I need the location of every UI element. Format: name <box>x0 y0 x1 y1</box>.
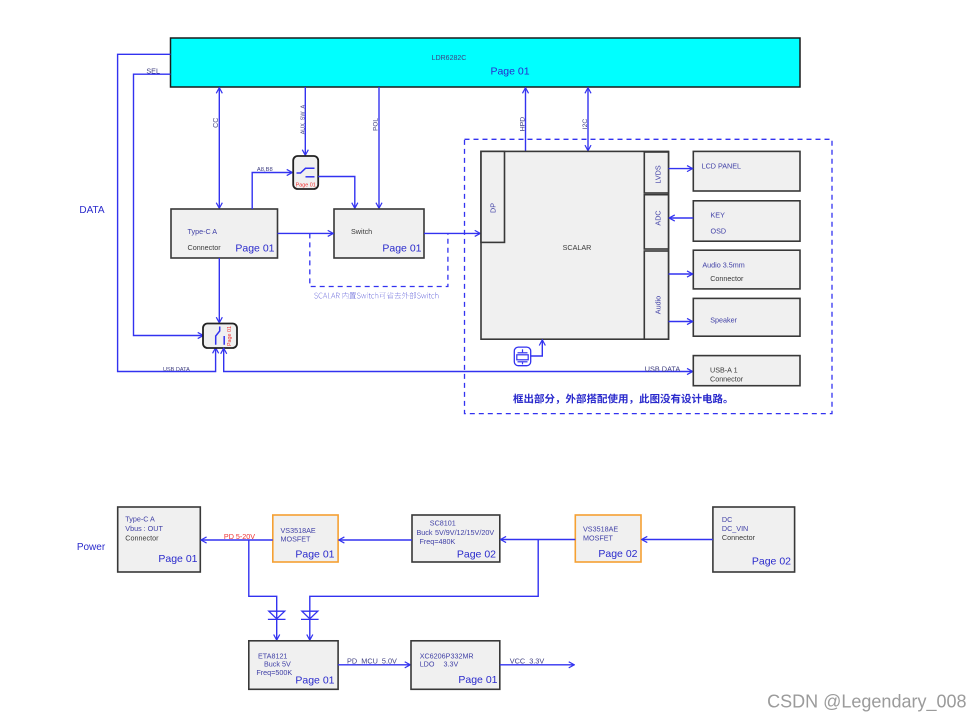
wire Type-C A to Switch <box>278 232 334 234</box>
wire USB DATA east to USB-A 1 <box>224 348 693 373</box>
diode D1 <box>268 611 286 619</box>
svg-text:Page 01: Page 01 <box>158 553 197 565</box>
annotation Chinese note <box>513 394 727 404</box>
svg-text:I2C: I2C <box>582 119 589 130</box>
watermark <box>767 692 966 713</box>
svg-text:SCALAR: SCALAR <box>563 243 592 252</box>
svg-text:Freq=480K: Freq=480K <box>420 537 456 546</box>
connector J1 Type-C A <box>171 209 278 258</box>
svg-text:Page 01: Page 01 <box>295 549 334 561</box>
wire USB DATA net from U1 to USB mux <box>118 54 216 373</box>
port DP <box>481 151 505 242</box>
annotation text switch note <box>314 292 438 299</box>
svg-text:ADC: ADC <box>654 210 663 225</box>
svg-text:Buck5V/9V/12/15V/20V: Buck5V/9V/12/15V/20V <box>417 528 495 537</box>
wire PD_MCU_5.0V <box>338 657 410 666</box>
svg-text:SEL: SEL <box>146 67 160 76</box>
IC U6 SC8101 <box>412 515 500 562</box>
wire KEY OSD to ADC <box>670 217 694 219</box>
wire SC8101 to Q1 <box>339 539 412 541</box>
mosfet Q2 VS3518AE <box>575 515 641 562</box>
block KEY OSD <box>693 201 800 241</box>
svg-text:MOSFET: MOSFET <box>583 534 614 543</box>
block Audio 3.5mm Connector <box>693 250 800 289</box>
wire I2C net <box>582 88 589 150</box>
port ADC <box>644 195 668 249</box>
wire SEL net <box>134 67 204 336</box>
dashed external-parts region box <box>465 139 833 413</box>
wire AUX_SW_A net <box>301 87 307 155</box>
wire VCC_3.3V <box>500 657 574 666</box>
svg-text:Connector: Connector <box>125 534 159 543</box>
wire LVDS to LCD PANEL <box>669 168 693 170</box>
svg-text:USB DATA: USB DATA <box>163 367 190 373</box>
svg-text:Page 02: Page 02 <box>752 556 791 568</box>
svg-text:VCC_3.3V: VCC_3.3V <box>510 657 545 666</box>
wire Type-C A to USB mux <box>218 258 220 323</box>
svg-text:USB DATA: USB DATA <box>645 364 681 373</box>
svg-text:Page 01: Page 01 <box>296 182 316 188</box>
svg-text:DATA: DATA <box>79 205 105 216</box>
dashed annotation box around Switch <box>310 233 448 286</box>
svg-text:KEY: KEY <box>711 211 726 220</box>
svg-text:Connector: Connector <box>722 533 756 542</box>
svg-text:A8,B8: A8,B8 <box>257 167 273 173</box>
AUX switch U2 (off-page) <box>293 156 318 189</box>
svg-text:Connector: Connector <box>188 243 222 252</box>
svg-text:Connector: Connector <box>710 375 744 384</box>
wire POL net <box>373 87 380 208</box>
port Audio <box>644 251 668 339</box>
section label DATA <box>79 205 105 216</box>
svg-text:MOSFET: MOSFET <box>281 535 312 544</box>
block LCD PANEL <box>693 151 800 191</box>
IC U5 SCALAR <box>481 151 669 339</box>
svg-text:LVDS: LVDS <box>654 165 663 183</box>
svg-text:CC: CC <box>213 118 220 128</box>
wire AUX switch to Switch <box>318 177 355 209</box>
svg-text:Page 02: Page 02 <box>457 549 496 561</box>
wire crystal to SCALAR <box>531 340 543 356</box>
svg-text:LDR6282C: LDR6282C <box>432 55 467 62</box>
IC U1 LDR6282C <box>171 38 801 87</box>
block USB-A 1 Connector <box>693 356 800 386</box>
section label Power <box>77 542 106 553</box>
wire VIN net drop to diode D2 <box>310 540 538 640</box>
svg-text:Page 01: Page 01 <box>490 66 529 78</box>
svg-text:Speaker: Speaker <box>710 316 737 325</box>
wire DC to Q2 <box>642 539 713 541</box>
connector J3 DC <box>713 507 795 572</box>
svg-text:PD_MCU_5.0V: PD_MCU_5.0V <box>347 657 397 666</box>
switch U3 <box>334 209 424 258</box>
svg-text:Freq=500K: Freq=500K <box>256 668 292 677</box>
svg-text:LCD PANEL: LCD PANEL <box>702 162 741 171</box>
svg-text:Page 01: Page 01 <box>227 326 233 346</box>
wire CC net <box>213 88 220 208</box>
svg-text:AUX_SW_A: AUX_SW_A <box>301 105 307 135</box>
svg-text:Page 02: Page 02 <box>598 548 637 560</box>
USB mux U4 (off-page) <box>203 324 237 349</box>
svg-text:VS3518AE: VS3518AE <box>583 525 618 534</box>
IC U7 ETA8121 <box>249 641 338 690</box>
svg-text:Vbus : OUT: Vbus : OUT <box>125 524 163 533</box>
IC U8 XC6206P332MR <box>411 641 500 690</box>
svg-text:Type-C A: Type-C A <box>125 515 155 524</box>
mosfet Q1 VS3518AE <box>273 515 338 562</box>
wire PD net drop to diode D1 <box>249 540 277 640</box>
svg-text:Switch: Switch <box>351 227 372 236</box>
svg-text:Page 01: Page 01 <box>382 243 421 255</box>
svg-text:Audio: Audio <box>654 296 663 314</box>
wire Q2 to SC8101 <box>501 539 576 541</box>
svg-text:PD 5-20V: PD 5-20V <box>224 532 255 541</box>
diode D2 <box>301 611 319 619</box>
svg-text:Audio 3.5mm: Audio 3.5mm <box>702 261 744 270</box>
svg-text:Page 01: Page 01 <box>295 675 334 687</box>
svg-text:CSDN @Legendary_008: CSDN @Legendary_008 <box>767 692 966 713</box>
wire HPD net <box>520 88 527 151</box>
svg-text:USB-A 1: USB-A 1 <box>710 366 738 375</box>
svg-text:Page 01: Page 01 <box>458 674 497 686</box>
connector J2 Type-C A power <box>118 507 201 572</box>
svg-text:DC: DC <box>722 515 732 524</box>
svg-text:SC8101: SC8101 <box>430 519 456 528</box>
port LVDS <box>644 152 668 193</box>
svg-text:POL: POL <box>373 118 380 131</box>
wire A8,B8 net <box>252 167 292 209</box>
wire Audio to Speaker <box>669 321 693 323</box>
svg-text:Power: Power <box>77 542 106 553</box>
svg-text:DC_VIN: DC_VIN <box>722 524 748 533</box>
wire Switch to DP <box>424 232 480 234</box>
svg-text:Page 01: Page 01 <box>235 243 274 255</box>
wire PD 5-20V Q1 to Type-C A <box>201 532 272 541</box>
svg-text:HPD: HPD <box>520 117 527 131</box>
wire Audio to Audio 3.5mm <box>669 273 693 275</box>
svg-text:Type-C A: Type-C A <box>188 227 218 236</box>
block Speaker <box>693 298 800 336</box>
crystal Y1 <box>514 347 530 366</box>
svg-text:DP: DP <box>489 203 498 213</box>
svg-text:OSD: OSD <box>711 227 727 236</box>
svg-text:Connector: Connector <box>710 274 744 283</box>
